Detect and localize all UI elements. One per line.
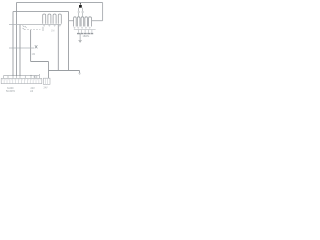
- svg-text:1M: 1M: [51, 30, 54, 33]
- terminal strip X1 body: [1, 78, 42, 83]
- contactor K1 pole ticks: [13, 47, 20, 50]
- coil bank leg terminals (circles): [74, 27, 90, 28]
- breaker Q1 trip marks: [23, 26, 27, 30]
- wire control bus bottom: [49, 70, 80, 72]
- terminal block X2: [43, 78, 50, 84]
- junction dots on connector: [12, 75, 31, 76]
- wire into coil bank left: [69, 20, 74, 22]
- wire L1 top rail: [17, 2, 103, 4]
- contactor coil bank (5 loops): [74, 17, 92, 27]
- contactor KM1 pole bank (4 loops): [43, 14, 62, 24]
- terminal strip X1 dividers: [4, 78, 39, 83]
- terminal numbers (dots): [2, 79, 40, 81]
- relay KA1 coil (dark square): [79, 3, 81, 6]
- contactor K1 linkage: [9, 47, 34, 49]
- PE bus bar (segmented blocks): [77, 33, 93, 35]
- wire from L2 rail down right side: [68, 12, 70, 71]
- breaker Q1 linkage: [9, 24, 61, 26]
- terminal strip X1 top connector: [4, 75, 40, 77]
- ground wire: [79, 34, 81, 41]
- contactor KM1 pin terminals: [44, 25, 61, 26]
- wire from breaker down: [30, 30, 32, 62]
- svg-text:24V: 24V: [44, 88, 49, 90]
- ground tail mark: [78, 73, 80, 74]
- wire into coil bank right: [92, 20, 103, 22]
- terminal strip X1 stubs: [4, 74, 40, 78]
- relay contact leads: [79, 8, 83, 11]
- wire right rail down: [102, 3, 104, 21]
- wire L2 rail: [13, 11, 69, 13]
- svg-text:ctrl: ctrl: [30, 90, 34, 93]
- breaker Q1 trip-unit box bottom (dashed): [24, 29, 41, 31]
- contact circle b: [82, 11, 84, 13]
- wire phase line L3 vertical: [19, 25, 21, 76]
- svg-text:18WG: 18WG: [83, 35, 90, 38]
- contactor K1 coil symbol: [35, 45, 38, 48]
- wire down to terminal: [48, 62, 50, 79]
- svg-text:50-60Hz: 50-60Hz: [6, 90, 16, 93]
- coil bank bottom connector: [74, 29, 96, 31]
- coil bank bottom stubs: [78, 30, 92, 33]
- wire corner to right: [31, 61, 49, 63]
- wire contactor output down: [57, 25, 59, 71]
- wire phase line L1 vertical: [16, 3, 18, 76]
- wire phase line L2 vertical: [12, 12, 14, 76]
- contactor KM1 pin 1 lead: [42, 27, 44, 31]
- contact circle a: [78, 11, 80, 13]
- wire stop tail: [79, 71, 81, 74]
- svg-text:1M: 1M: [32, 52, 36, 56]
- ground: [79, 40, 82, 42]
